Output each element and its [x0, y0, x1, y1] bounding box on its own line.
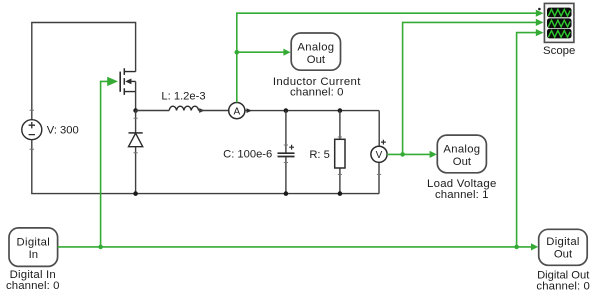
svg-text:V: V — [376, 150, 383, 161]
resistor R — [335, 139, 345, 168]
svg-text:Digital Out: Digital Out — [537, 269, 590, 281]
junction: resistor top node — [338, 108, 343, 113]
label Scope — [543, 45, 575, 57]
wire: digital signal up to scope input 3 (green) — [517, 29, 544, 247]
svg-text:V: 300: V: 300 — [47, 124, 79, 136]
block Digital Out — [539, 229, 588, 265]
wire: diode branch vertical — [134, 111, 138, 194]
block Analog Out U1 (inductor current) — [291, 33, 340, 70]
capacitor C — [278, 145, 295, 157]
svg-text:channel: 1: channel: 1 — [435, 189, 489, 201]
wire: ammeter signal up and to scope input 1 (green) — [237, 10, 544, 103]
junction: capacitor top node — [284, 108, 289, 113]
svg-text:Load Voltage: Load Voltage — [427, 178, 497, 190]
wire: capacitor branch — [284, 111, 288, 194]
svg-text:Analog: Analog — [297, 41, 334, 53]
value label V: 300 — [47, 124, 79, 136]
junction: digital line to scope branch — [514, 245, 519, 250]
svg-text:channel: 0: channel: 0 — [536, 281, 590, 293]
svg-text:C: 100e-6: C: 100e-6 — [223, 149, 272, 161]
value label R: 5 — [309, 149, 330, 161]
svg-text:Scope: Scope — [543, 45, 575, 57]
block Analog Out U2 (load voltage) — [437, 135, 486, 173]
junction: capacitor bottom node — [284, 191, 289, 196]
wire: gate drive (green) from digital line to MOSFET gate — [101, 77, 118, 247]
wire: resistor branch — [338, 111, 342, 194]
wire: branch to Analog Out 1 (green) — [237, 49, 291, 56]
block Scope — [544, 3, 574, 42]
svg-text:Out: Out — [453, 156, 472, 168]
wire: voltmeter branch — [377, 111, 381, 194]
junction: gate wire on digital line — [98, 245, 103, 250]
svg-text:Out: Out — [307, 54, 326, 66]
annotation dot near scope input 1 — [538, 8, 541, 11]
junction: branch to Analog Out (inductor current) — [235, 50, 240, 55]
wire: digital line from Digital In to Digital Out (green) — [58, 243, 539, 250]
junction: diode anode on bottom rail — [133, 191, 138, 196]
label Load Voltage channel: 1 — [427, 178, 497, 201]
svg-text:channel: 0: channel: 0 — [6, 280, 60, 292]
svg-text:Digital: Digital — [546, 236, 580, 248]
svg-text:Analog: Analog — [443, 143, 480, 155]
transistor MOSFET — [120, 68, 135, 110]
svg-text:L: 1.2e-3: L: 1.2e-3 — [161, 90, 205, 102]
voltmeter V — [371, 140, 387, 163]
svg-text:A: A — [233, 106, 240, 117]
junction: resistor bottom node — [338, 191, 343, 196]
wire: inductor to ammeter — [199, 110, 229, 112]
inductor L — [169, 106, 204, 113]
junction: voltmeter signal to scope branch — [400, 152, 405, 157]
label Digital In channel: 0 — [6, 269, 60, 292]
junction: MOSFET source / diode / inductor node — [133, 108, 138, 113]
value label C: 100e-6 — [223, 149, 272, 161]
svg-text:In: In — [29, 249, 38, 261]
svg-text:Digital: Digital — [17, 236, 51, 248]
wire: left rail below source to bottom rail — [30, 110, 380, 193]
wire: top rail from source to MOSFET drain — [32, 23, 136, 120]
svg-text:R: 5: R: 5 — [309, 149, 330, 161]
wire: voltmeter signal to Analog Out 2 (green) — [387, 151, 437, 158]
value label L: 1.2e-3 — [161, 90, 205, 102]
label Inductor Current channel: 0 — [273, 76, 361, 99]
diode (freewheeling) — [129, 133, 143, 147]
label Digital Out channel: 0 — [536, 269, 590, 292]
block Digital In — [9, 228, 58, 267]
voltage source V: 300 — [22, 120, 42, 140]
wire: ammeter to load rail with arrow — [245, 108, 379, 113]
wire: node to inductor — [136, 110, 170, 112]
wire: load voltage up to scope input 2 (green) — [403, 19, 544, 155]
svg-text:channel: 0: channel: 0 — [290, 87, 344, 99]
svg-text:Out: Out — [554, 249, 573, 261]
ammeter A — [229, 103, 245, 119]
svg-text:Digital In: Digital In — [10, 269, 56, 281]
